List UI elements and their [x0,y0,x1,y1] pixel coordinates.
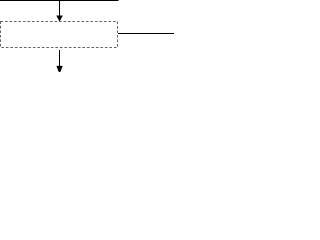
wire: incoming vertical edge [59,0,61,16]
node: dashed box [1,22,118,48]
wire: top horizontal edge segment [0,0,119,2]
arrowhead downward (clipped at image bottom) [56,66,62,74]
wire: right horizontal edge segment [118,33,174,35]
arrowhead into box [56,16,63,22]
wire: outgoing vertical edge [59,50,61,66]
